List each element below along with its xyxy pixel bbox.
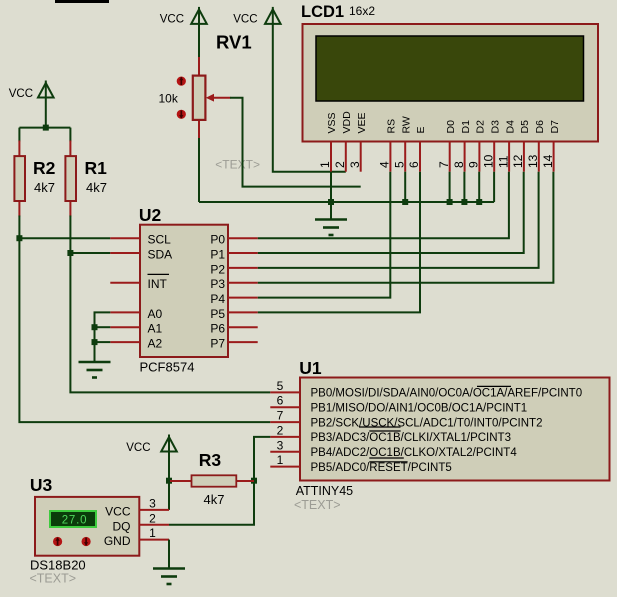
wire LCD E to U2 P5	[258, 172, 420, 313]
wire LCD D3 to ground rail	[493, 172, 495, 202]
pin stub P2 of U2	[228, 267, 258, 269]
wire LCD D7 to U2 P3	[258, 172, 554, 283]
svg-text:PB3/ADC3/OC1B/CLKI/XTAL1/PCINT: PB3/ADC3/OC1B/CLKI/XTAL1/PCINT3	[311, 432, 511, 444]
svg-text:12: 12	[511, 154, 525, 168]
svg-text:PB5/ADC0/RESET/PCINT5: PB5/ADC0/RESET/PCINT5	[311, 462, 452, 474]
pin 6 stub of U1 (PB1)	[270, 406, 300, 408]
junction D1/ground	[461, 199, 467, 205]
svg-text:14: 14	[541, 154, 555, 168]
junction R3/DQ	[251, 478, 257, 484]
svg-text:RW: RW	[400, 116, 412, 133]
underline OC1B on U1 PB4 row	[369, 457, 404, 459]
svg-text:3: 3	[277, 438, 284, 452]
pin stub LCD pin 13	[538, 142, 540, 172]
junction RW/ground	[402, 199, 408, 205]
pin stub A2 of U2	[110, 341, 140, 343]
wire LCD RS to U2 P4	[258, 172, 391, 298]
wire U2 A1 to ground net	[95, 326, 111, 328]
wire LCD D5 to U2 P1	[258, 172, 524, 253]
svg-text:VCC: VCC	[233, 14, 257, 26]
resistor R2	[14, 141, 25, 217]
junction SDA	[67, 250, 73, 256]
svg-text:A2: A2	[148, 337, 163, 351]
IO expander U2 PCF8574	[140, 225, 228, 357]
pin stub LCD pin 3	[360, 142, 362, 172]
svg-text:10: 10	[481, 154, 495, 168]
svg-text:16x2: 16x2	[349, 4, 375, 18]
pin stub P6 of U2	[228, 326, 258, 328]
power flag VCC (LCD VDD)	[233, 7, 280, 26]
wire U2 A0 to ground	[95, 312, 111, 354]
overline OC1B on U1 PB3 row	[369, 430, 400, 432]
wire LCD D0 to ground rail	[449, 172, 451, 202]
wire LCD D6 to U2 P2	[258, 172, 539, 268]
svg-text:VCC: VCC	[126, 442, 150, 454]
resistor R1	[65, 141, 76, 217]
junction D2/ground	[476, 199, 482, 205]
wire RV1 wiper to LCD VEE pin 3	[230, 98, 361, 187]
svg-text:5: 5	[392, 161, 406, 168]
wire VCC stem to RV1	[198, 24, 200, 62]
wire R1 to SDA node	[69, 216, 71, 255]
pin stub LCD pin 8	[464, 142, 466, 172]
pin 5 stub of U1 (PB0)	[270, 391, 300, 393]
svg-text:E: E	[415, 126, 427, 133]
svg-text:2: 2	[277, 423, 284, 437]
junction SCL	[16, 235, 22, 241]
wire LCD D2 to ground rail	[478, 172, 480, 202]
svg-text:27.0: 27.0	[62, 515, 88, 527]
wire LCD RW to ground rail	[404, 172, 406, 202]
wire SDA to U1 PB0	[70, 253, 270, 392]
pin stub LCD pin 14	[553, 142, 555, 172]
svg-text:1: 1	[277, 453, 284, 467]
svg-text:VCC: VCC	[9, 88, 33, 100]
pin name INT of U2 (active low)	[148, 274, 170, 291]
svg-text:7: 7	[437, 161, 451, 168]
pin stub INT of U2	[110, 282, 140, 284]
svg-text:D7: D7	[549, 120, 561, 134]
wire RV1 bottom to ground rail	[198, 138, 200, 202]
svg-text:4k7: 4k7	[204, 492, 225, 507]
svg-text:6: 6	[277, 394, 284, 408]
svg-text:PB1/MISO/DO/AIN1/OC0B/OC1A/PCI: PB1/MISO/DO/AIN1/OC0B/OC1A/PCINT1	[311, 402, 528, 414]
potentiometer RV1	[193, 57, 231, 139]
pin stub LCD pin 1	[330, 142, 332, 172]
pin stub P4 of U2	[228, 297, 258, 299]
svg-text:R3: R3	[199, 450, 222, 470]
junction VSS/ground	[328, 199, 334, 205]
pin 3 stub of U3 (VCC)	[139, 509, 169, 511]
svg-text:PCF8574: PCF8574	[140, 360, 195, 375]
wire VCC to LCD VDD pin 2	[273, 24, 346, 172]
pin 2 stub of U1 (PB3)	[270, 436, 300, 438]
svg-text:VCC: VCC	[160, 14, 184, 26]
svg-text:SCL: SCL	[148, 233, 172, 247]
pin stub P5 of U2	[228, 311, 258, 313]
svg-text:VCC: VCC	[105, 504, 131, 518]
pin 2 stub of U3 (DQ)	[139, 524, 169, 526]
wire U2 A2 to ground net	[95, 341, 111, 343]
svg-text:6: 6	[407, 161, 421, 168]
pin marker U3 right	[82, 537, 91, 546]
svg-text:PB4/ADC2/OC1B/CLKO/XTAL2/PCINT: PB4/ADC2/OC1B/CLKO/XTAL2/PCINT4	[311, 447, 518, 459]
svg-text:13: 13	[526, 154, 540, 168]
pin stub LCD pin 7	[449, 142, 451, 172]
junction VCC/R1/R2	[43, 125, 49, 131]
pin stub A0 of U2	[110, 311, 140, 313]
svg-text:<TEXT>: <TEXT>	[215, 158, 260, 172]
svg-text:2: 2	[333, 161, 347, 168]
svg-text:VEE: VEE	[356, 112, 368, 133]
temperature readout 27.0	[50, 511, 96, 527]
pin 7 stub of U1 (PB2)	[270, 421, 300, 423]
svg-text:D3: D3	[489, 120, 501, 134]
svg-text:11: 11	[496, 155, 510, 168]
svg-text:VDD: VDD	[341, 111, 353, 134]
wire node SCL to U2	[19, 237, 110, 239]
svg-text:R1: R1	[85, 158, 108, 178]
overline OC1A on U1 PB0 row	[477, 385, 511, 387]
svg-text:R2: R2	[33, 158, 56, 178]
wire VCC rail to pullups	[19, 127, 70, 129]
svg-text:DQ: DQ	[113, 519, 131, 533]
junction D0/ground	[447, 199, 453, 205]
svg-text:LCD1: LCD1	[301, 3, 344, 21]
svg-text:P1: P1	[210, 248, 225, 262]
svg-text:P3: P3	[210, 277, 225, 291]
wire VCC stem	[45, 98, 47, 128]
pin stub LCD pin 6	[419, 142, 421, 172]
svg-text:SDA: SDA	[148, 248, 173, 262]
wire SCL to U1 PB2	[19, 238, 270, 422]
svg-text:8: 8	[452, 161, 466, 168]
svg-text:RS: RS	[386, 119, 398, 134]
MCU U1 ATTINY45	[300, 378, 610, 481]
pin marker U3 left	[53, 537, 62, 546]
wire U3 GND to ground	[168, 540, 170, 566]
wire LCD VSS to ground rail	[330, 172, 332, 202]
pin 3 stub of U1 (PB4)	[270, 451, 300, 453]
pin stub LCD pin 4	[389, 142, 391, 172]
svg-text:3: 3	[348, 161, 362, 168]
LCD module LCD1	[303, 24, 599, 142]
pin 1 stub of U1 (PB5)	[270, 466, 300, 468]
pin marker RV1 bottom	[177, 110, 186, 119]
svg-text:INT: INT	[148, 277, 168, 291]
pin stub LCD pin 12	[523, 142, 525, 172]
screen-edge artifact	[55, 0, 109, 3]
svg-text:5: 5	[277, 379, 284, 393]
svg-text:P4: P4	[210, 292, 225, 306]
svg-text:<TEXT>: <TEXT>	[294, 498, 341, 512]
ground symbol for U2 address pins	[79, 352, 111, 378]
svg-text:GND: GND	[104, 534, 131, 548]
svg-text:P0: P0	[210, 233, 225, 247]
pin 1 stub of U3 (GND)	[139, 539, 169, 541]
pin stub LCD pin 11	[508, 142, 510, 172]
svg-text:A1: A1	[148, 322, 163, 336]
svg-text:D4: D4	[504, 120, 516, 134]
ground symbol below LCD pin 1	[315, 202, 347, 235]
junction A2	[92, 339, 98, 345]
svg-text:DS18B20: DS18B20	[30, 558, 86, 573]
wire VCC to R1	[69, 128, 71, 142]
pin stub P7 of U2	[228, 341, 258, 343]
svg-text:<TEXT>: <TEXT>	[30, 572, 77, 586]
svg-text:RV1: RV1	[216, 32, 252, 53]
ground symbol below U3	[153, 560, 185, 584]
wire R2 to SCL node	[18, 216, 20, 240]
pin stub LCD pin 2	[345, 142, 347, 172]
svg-text:P7: P7	[210, 337, 225, 351]
svg-text:D6: D6	[534, 120, 546, 134]
svg-text:PB2/SCK/USCK/SCL/ADC1/T0/INT0/: PB2/SCK/USCK/SCL/ADC1/T0/INT0/PCINT2	[311, 417, 543, 429]
svg-text:2: 2	[149, 511, 156, 525]
svg-text:ATTINY45: ATTINY45	[296, 484, 353, 498]
svg-text:1: 1	[149, 526, 156, 540]
pin stub P3 of U2	[228, 282, 258, 284]
pin stub A1 of U2	[110, 326, 140, 328]
svg-text:VSS: VSS	[326, 112, 338, 133]
svg-text:10k: 10k	[159, 92, 179, 106]
svg-text:1: 1	[318, 161, 332, 168]
junction A1	[92, 324, 98, 330]
svg-text:U1: U1	[299, 358, 322, 378]
pin marker RV1 top	[177, 77, 186, 86]
temperature sensor U3 DS18B20	[35, 497, 139, 556]
svg-text:4: 4	[378, 161, 392, 168]
wire VCC stem to R3/U3	[168, 452, 170, 510]
power flag VCC (pullups R1 R2)	[9, 81, 54, 101]
pin stub LCD pin 5	[404, 142, 406, 172]
svg-text:U2: U2	[139, 205, 162, 225]
svg-text:D1: D1	[460, 120, 472, 134]
svg-text:4k7: 4k7	[86, 180, 107, 195]
pin stub SCL of U2	[110, 237, 140, 239]
svg-text:P2: P2	[210, 262, 225, 276]
pin stub P0 of U2	[228, 237, 258, 239]
svg-text:D5: D5	[519, 120, 531, 134]
pin stub LCD pin 9	[478, 142, 480, 172]
pin stub LCD pin 10	[493, 142, 495, 172]
power flag VCC (R3 pullup, U3)	[126, 435, 177, 455]
svg-text:D2: D2	[475, 120, 487, 134]
wire U1 PB3 to U3 DQ	[169, 437, 270, 525]
wire node SDA to U2	[70, 252, 110, 254]
svg-text:A0: A0	[148, 307, 163, 321]
svg-text:P5: P5	[210, 307, 225, 321]
wire VCC to R2	[18, 128, 20, 142]
overline RESET on U1 PB5 row	[369, 461, 407, 463]
svg-text:3: 3	[149, 496, 156, 510]
underline USCK on U1 PB2 row	[359, 426, 401, 428]
wire LCD D4 to U2 P0	[258, 172, 509, 239]
svg-text:7: 7	[277, 409, 284, 423]
pin stub P1 of U2	[228, 252, 258, 254]
wire ground rail under LCD	[199, 201, 494, 203]
resistor R3	[170, 475, 254, 486]
svg-text:D0: D0	[445, 120, 457, 134]
power flag VCC (RV1)	[160, 7, 207, 26]
svg-text:P6: P6	[210, 322, 225, 336]
svg-text:9: 9	[467, 161, 481, 168]
svg-text:U3: U3	[30, 475, 53, 495]
pin stub SDA of U2	[110, 252, 140, 254]
svg-text:4k7: 4k7	[34, 180, 55, 195]
svg-text:PB0/MOSI/DI/SDA/AIN0/OC0A/OC1A: PB0/MOSI/DI/SDA/AIN0/OC0A/OC1A/AREF/PCIN…	[311, 388, 583, 400]
junction R3/VCC	[166, 478, 172, 484]
wire LCD D1 to ground rail	[463, 172, 465, 202]
